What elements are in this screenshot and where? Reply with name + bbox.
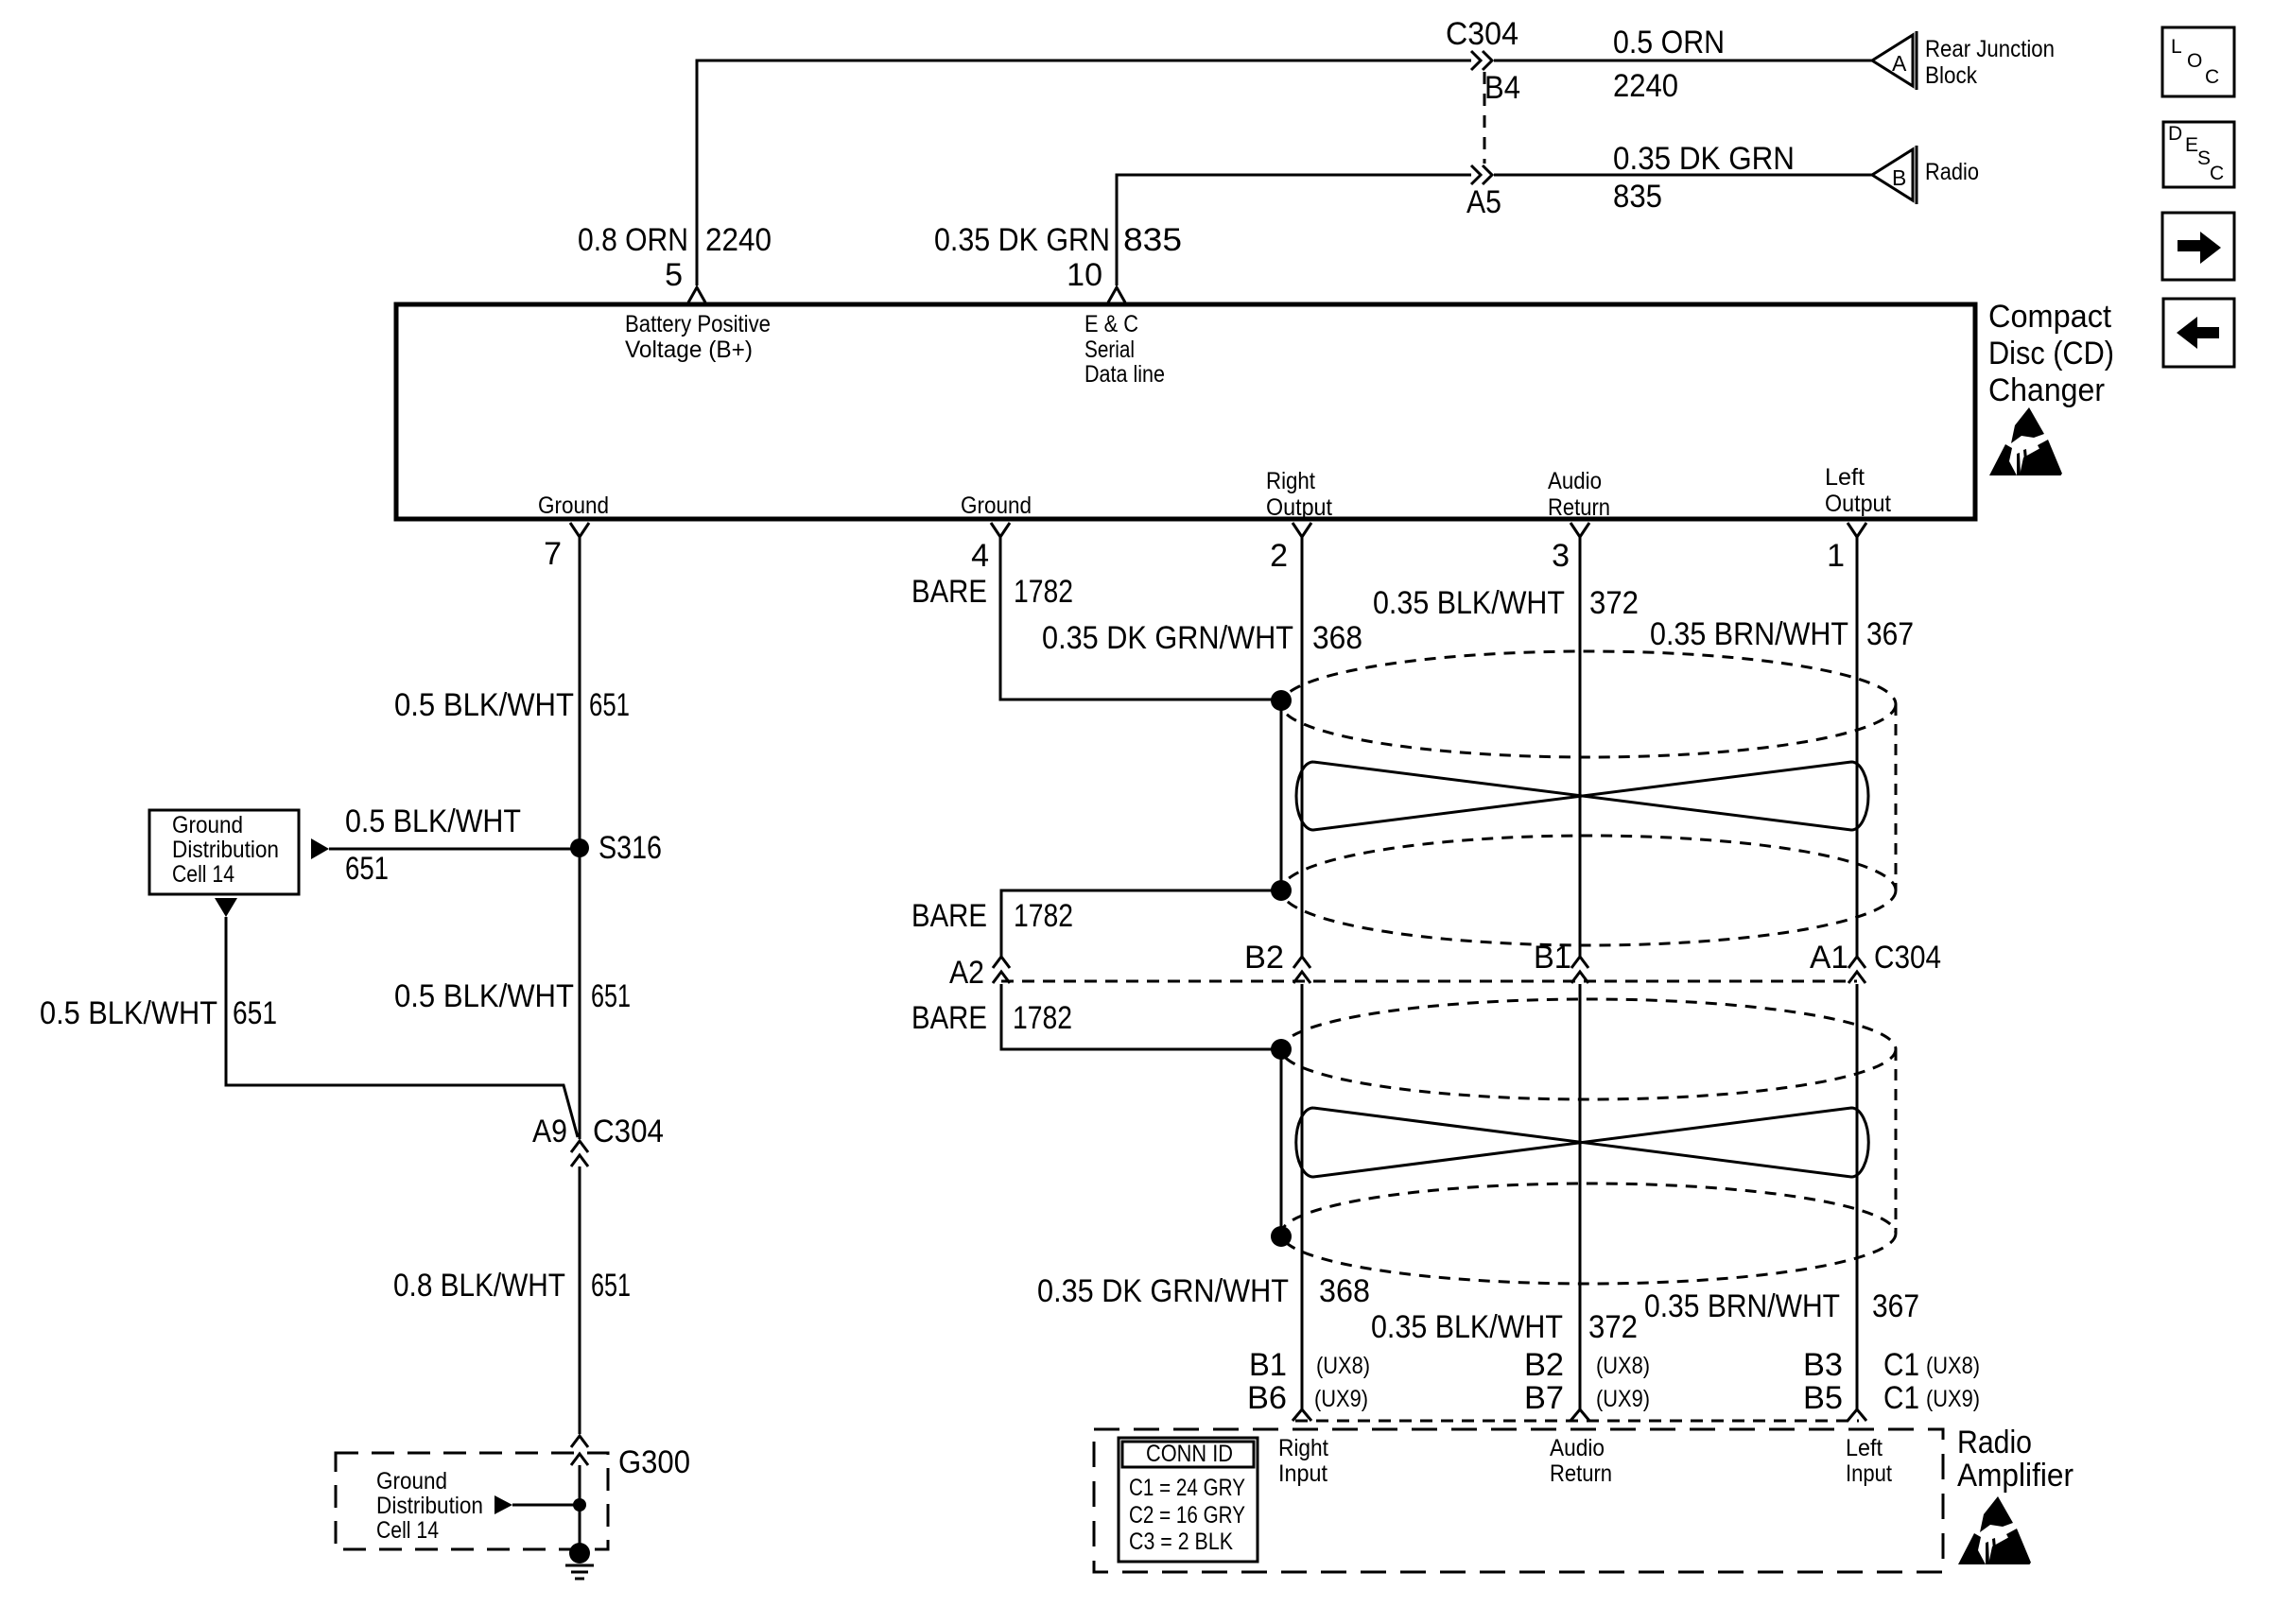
- svg-text:C304: C304: [1874, 940, 1941, 976]
- wire: left output pin 1 down to A1: [1856, 537, 1859, 957]
- amplifier terminal fork (left input): [1848, 1409, 1866, 1421]
- off-page reference triangle B: Radio: [1872, 146, 1917, 204]
- wire: battery positive feed from pin 5 up and right to C304: [697, 60, 1471, 285]
- svg-text:Disc (CD): Disc (CD): [1988, 336, 2114, 371]
- svg-text:O: O: [2187, 50, 2202, 72]
- wire: audio return B1 down to radio amplifier: [1579, 984, 1582, 1410]
- connector C304 terminal A2 (double chevron): [993, 957, 1010, 983]
- svg-text:D: D: [2168, 123, 2182, 145]
- svg-text:Cell 14: Cell 14: [172, 861, 234, 888]
- svg-text:A1: A1: [1810, 940, 1848, 976]
- svg-text:Ground: Ground: [538, 492, 609, 519]
- svg-text:368: 368: [1319, 1273, 1370, 1309]
- shield 2 drain dot bottom: [1271, 1226, 1292, 1247]
- svg-text:Ground: Ground: [172, 812, 243, 838]
- shield 2 right side dashed: [1895, 1049, 1898, 1234]
- svg-text:L: L: [2171, 36, 2182, 58]
- connector C304 terminal B2 (double chevron): [1293, 957, 1310, 983]
- svg-text:C3 = 2 BLK: C3 = 2 BLK: [1129, 1529, 1233, 1555]
- shield 1 drain dot top: [1271, 690, 1292, 711]
- CONN ID table: [1119, 1438, 1258, 1562]
- shield 2 upper dashed ellipse: [1281, 999, 1896, 1099]
- connector C304 terminal A5 (double chevron on wire): [1471, 165, 1492, 184]
- wire: ground distribution branch down and right to A9: [226, 917, 578, 1137]
- svg-text:7: 7: [544, 536, 562, 572]
- svg-text:(UX9): (UX9): [1926, 1386, 1980, 1412]
- svg-text:Output: Output: [1266, 494, 1332, 521]
- connector C304 terminal B4 (double chevron on wire): [1471, 51, 1492, 70]
- svg-text:2240: 2240: [1613, 68, 1678, 104]
- svg-text:372: 372: [1589, 585, 1639, 621]
- svg-text:B: B: [1892, 165, 1906, 190]
- svg-text:Voltage (B+): Voltage (B+): [625, 337, 753, 363]
- pin 2 terminal fork: [1293, 523, 1311, 537]
- svg-text:2240: 2240: [705, 222, 772, 258]
- shield 1 drain dot bottom: [1271, 880, 1292, 901]
- svg-text:B4: B4: [1484, 70, 1520, 106]
- svg-text:2: 2: [1270, 538, 1288, 574]
- svg-text:C: C: [2205, 66, 2219, 88]
- wire: audio return pin 3 down to B1: [1579, 537, 1582, 957]
- amplifier terminal fork (audio return): [1570, 1409, 1589, 1421]
- svg-text:Distribution: Distribution: [376, 1493, 483, 1519]
- arrow to ground distribution: [311, 838, 329, 859]
- ground symbol bars: [565, 1565, 594, 1579]
- svg-text:Output: Output: [1825, 491, 1891, 517]
- svg-text:B3: B3: [1803, 1347, 1843, 1383]
- legend box LOC: [2162, 27, 2234, 96]
- dashed line of connector C304 between B4 and A5: [1484, 72, 1486, 164]
- svg-text:E & C: E & C: [1084, 311, 1138, 337]
- svg-text:C2 = 16 GRY: C2 = 16 GRY: [1129, 1502, 1245, 1529]
- svg-text:Return: Return: [1548, 494, 1610, 521]
- svg-text:835: 835: [1613, 179, 1662, 215]
- svg-text:0.35 BLK/WHT: 0.35 BLK/WHT: [1373, 585, 1565, 621]
- svg-text:0.35 BRN/WHT: 0.35 BRN/WHT: [1650, 616, 1848, 652]
- svg-text:(UX8): (UX8): [1316, 1353, 1370, 1379]
- wire: drain from A2 down and right to shield 2: [1001, 984, 1275, 1049]
- wire: 0.5 ORN 2240 from C304 to rear junction block: [1494, 60, 1872, 62]
- legend box DESC: [2163, 122, 2234, 187]
- connector C304 terminal A9 (double chevron): [571, 1141, 588, 1166]
- twisted pair symbol 1: [1296, 762, 1868, 830]
- svg-text:372: 372: [1588, 1309, 1638, 1345]
- svg-text:(UX8): (UX8): [1596, 1353, 1650, 1379]
- svg-text:0.35 DK GRN: 0.35 DK GRN: [934, 222, 1110, 258]
- svg-text:0.5 BLK/WHT: 0.5 BLK/WHT: [394, 978, 574, 1014]
- dashed connector line above amplifier: [1295, 1420, 1859, 1423]
- svg-text:0.35 BRN/WHT: 0.35 BRN/WHT: [1644, 1288, 1840, 1324]
- legend box right arrow: [2162, 213, 2234, 280]
- svg-text:1782: 1782: [1013, 1000, 1072, 1036]
- off-page reference triangle A: Rear Junction Block: [1872, 31, 1917, 90]
- ground G300 dot: [569, 1543, 590, 1564]
- shield 1 upper dashed ellipse: [1281, 651, 1896, 757]
- svg-text:367: 367: [1872, 1288, 1919, 1324]
- shield 2 drain dot top: [1271, 1039, 1292, 1060]
- shield 2 drain wire: [1280, 1049, 1283, 1236]
- svg-text:BARE: BARE: [911, 574, 987, 610]
- arrow from ground distribution (down): [215, 898, 237, 917]
- pin 3 terminal fork: [1570, 523, 1589, 537]
- svg-text:Cell 14: Cell 14: [376, 1517, 439, 1544]
- legend box left arrow: [2163, 299, 2234, 367]
- ESD sensitivity symbol (CD changer): [1989, 407, 2062, 475]
- component box: Compact Disc (CD) Changer: [396, 304, 1975, 519]
- svg-text:1782: 1782: [1014, 898, 1073, 934]
- svg-text:0.5 ORN: 0.5 ORN: [1613, 25, 1725, 60]
- svg-text:0.35 DK GRN/WHT: 0.35 DK GRN/WHT: [1042, 620, 1293, 656]
- svg-text:(UX8): (UX8): [1926, 1353, 1980, 1379]
- wire: S316 branch to ground distribution: [329, 848, 571, 851]
- svg-text:10: 10: [1067, 257, 1102, 293]
- svg-text:E: E: [2185, 134, 2198, 156]
- wire: right output pin 2 down to B2: [1301, 537, 1304, 957]
- connector C304 terminal A1 (double chevron): [1848, 957, 1865, 983]
- svg-text:(UX9): (UX9): [1596, 1386, 1650, 1412]
- svg-text:0.8 BLK/WHT: 0.8 BLK/WHT: [393, 1268, 565, 1304]
- svg-text:(UX9): (UX9): [1314, 1386, 1368, 1412]
- svg-text:368: 368: [1312, 620, 1362, 656]
- wire: E&C serial data from pin 10 up and right to C304: [1117, 175, 1471, 285]
- svg-text:Radio: Radio: [1925, 159, 1979, 185]
- svg-text:B5: B5: [1803, 1380, 1843, 1416]
- component box: Radio Amplifier (dashed): [1094, 1429, 1943, 1572]
- wire: drain pin 4 down and right to shield 1: [1000, 537, 1275, 700]
- svg-text:C: C: [2210, 163, 2224, 184]
- arrow inside G300 box: [495, 1495, 512, 1514]
- pin 4 terminal fork: [991, 523, 1010, 537]
- svg-text:3: 3: [1552, 538, 1570, 574]
- splice S316 dot: [570, 838, 589, 857]
- amplifier terminal fork (right input): [1293, 1409, 1311, 1421]
- wire: drain from shield 1 left and down to A2: [1001, 890, 1281, 957]
- svg-text:Amplifier: Amplifier: [1957, 1458, 2073, 1494]
- svg-text:Compact: Compact: [1988, 299, 2112, 335]
- svg-text:Data line: Data line: [1084, 361, 1165, 388]
- svg-text:651: 651: [589, 687, 630, 723]
- svg-text:Input: Input: [1278, 1460, 1327, 1487]
- svg-text:1782: 1782: [1014, 574, 1073, 610]
- svg-text:1: 1: [1827, 538, 1845, 574]
- pin 10 terminal chevron on box edge: [1108, 287, 1125, 302]
- wire inside G300 box: [512, 1465, 580, 1550]
- svg-text:S: S: [2197, 147, 2211, 169]
- dashed line of connector C304 (middle row): [1001, 980, 1857, 983]
- svg-text:Audio: Audio: [1550, 1435, 1605, 1461]
- svg-text:BARE: BARE: [911, 898, 987, 934]
- svg-text:367: 367: [1866, 616, 1914, 652]
- svg-text:C1: C1: [1883, 1380, 1919, 1416]
- svg-text:B1: B1: [1534, 940, 1571, 976]
- wire: left input A1 down to radio amplifier: [1856, 984, 1859, 1410]
- svg-text:Right: Right: [1266, 468, 1315, 494]
- svg-text:B2: B2: [1244, 940, 1284, 976]
- svg-text:C304: C304: [1446, 16, 1518, 52]
- svg-text:C304: C304: [593, 1114, 664, 1149]
- svg-text:0.5 BLK/WHT: 0.5 BLK/WHT: [345, 803, 521, 839]
- svg-text:0.35 DK GRN: 0.35 DK GRN: [1613, 141, 1795, 177]
- pin 1 terminal fork: [1848, 523, 1866, 537]
- wire: ground pin 7 down to splice S316 and connector C304 A9: [579, 537, 581, 1139]
- ESD sensitivity symbol (radio amplifier): [1958, 1496, 2031, 1564]
- pin 7 terminal fork: [570, 523, 589, 537]
- svg-text:651: 651: [591, 1268, 631, 1304]
- svg-text:Distribution: Distribution: [172, 837, 279, 863]
- svg-text:Left: Left: [1846, 1435, 1883, 1461]
- svg-text:A2: A2: [949, 955, 984, 991]
- wire: right input B2 down to radio amplifier: [1301, 984, 1304, 1410]
- svg-text:0.35 DK GRN/WHT: 0.35 DK GRN/WHT: [1037, 1273, 1289, 1309]
- wire: 0.35 DK GRN 835 from C304 to radio: [1494, 174, 1872, 177]
- svg-text:B1: B1: [1249, 1347, 1287, 1383]
- svg-text:Left: Left: [1825, 464, 1865, 491]
- svg-text:C1 = 24 GRY: C1 = 24 GRY: [1129, 1475, 1245, 1501]
- svg-text:Return: Return: [1550, 1460, 1612, 1487]
- svg-text:Right: Right: [1278, 1435, 1328, 1461]
- svg-text:Serial: Serial: [1084, 337, 1135, 363]
- svg-text:0.5 BLK/WHT: 0.5 BLK/WHT: [40, 995, 217, 1031]
- svg-text:4: 4: [971, 538, 989, 574]
- shield 1 lower dashed ellipse: [1281, 836, 1896, 945]
- svg-text:Radio: Radio: [1957, 1425, 2032, 1460]
- svg-text:835: 835: [1123, 222, 1182, 258]
- svg-text:G300: G300: [618, 1444, 690, 1480]
- svg-text:BARE: BARE: [911, 1000, 987, 1036]
- svg-text:Battery Positive: Battery Positive: [625, 311, 771, 337]
- svg-text:651: 651: [345, 851, 389, 887]
- svg-text:Changer: Changer: [1988, 372, 2105, 408]
- svg-text:651: 651: [233, 995, 277, 1031]
- svg-text:B6: B6: [1247, 1380, 1287, 1416]
- svg-text:A5: A5: [1466, 184, 1501, 220]
- svg-text:0.8 ORN: 0.8 ORN: [578, 222, 688, 258]
- svg-text:0.35 BLK/WHT: 0.35 BLK/WHT: [1371, 1309, 1563, 1345]
- shield 2 lower dashed ellipse: [1281, 1183, 1896, 1284]
- box: Ground Distribution Cell 14 (solid): [149, 810, 299, 894]
- svg-text:Input: Input: [1846, 1460, 1892, 1487]
- svg-text:B2: B2: [1524, 1347, 1564, 1383]
- svg-text:B7: B7: [1524, 1380, 1564, 1416]
- shield 1 drain wire: [1280, 700, 1283, 890]
- svg-text:CONN ID: CONN ID: [1146, 1441, 1233, 1467]
- pin 5 terminal chevron on box edge: [688, 287, 705, 302]
- svg-text:Ground: Ground: [961, 492, 1032, 519]
- svg-text:A: A: [1892, 51, 1907, 76]
- ground G300 connector chevrons: [571, 1436, 588, 1465]
- svg-text:5: 5: [665, 257, 683, 293]
- connector C304 terminal B1 (double chevron): [1571, 957, 1588, 983]
- svg-text:Rear Junction: Rear Junction: [1925, 36, 2055, 62]
- svg-text:A9: A9: [532, 1114, 567, 1149]
- svg-text:0.5 BLK/WHT: 0.5 BLK/WHT: [394, 687, 574, 723]
- shield 1 right side dashed: [1895, 704, 1898, 890]
- svg-text:Block: Block: [1925, 62, 1977, 89]
- svg-text:C1: C1: [1883, 1347, 1919, 1383]
- box: Ground Distribution Cell 14 (dashed, G300): [336, 1453, 608, 1549]
- svg-text:651: 651: [591, 978, 631, 1014]
- svg-text:Audio: Audio: [1548, 468, 1602, 494]
- wire: 0.8 BLK/WHT 651 from A9 down to G300: [579, 1166, 581, 1434]
- svg-text:S316: S316: [599, 830, 662, 866]
- svg-text:Ground: Ground: [376, 1468, 447, 1494]
- twisted pair symbol 2: [1296, 1108, 1869, 1177]
- junction dot in G300 box: [573, 1498, 586, 1512]
